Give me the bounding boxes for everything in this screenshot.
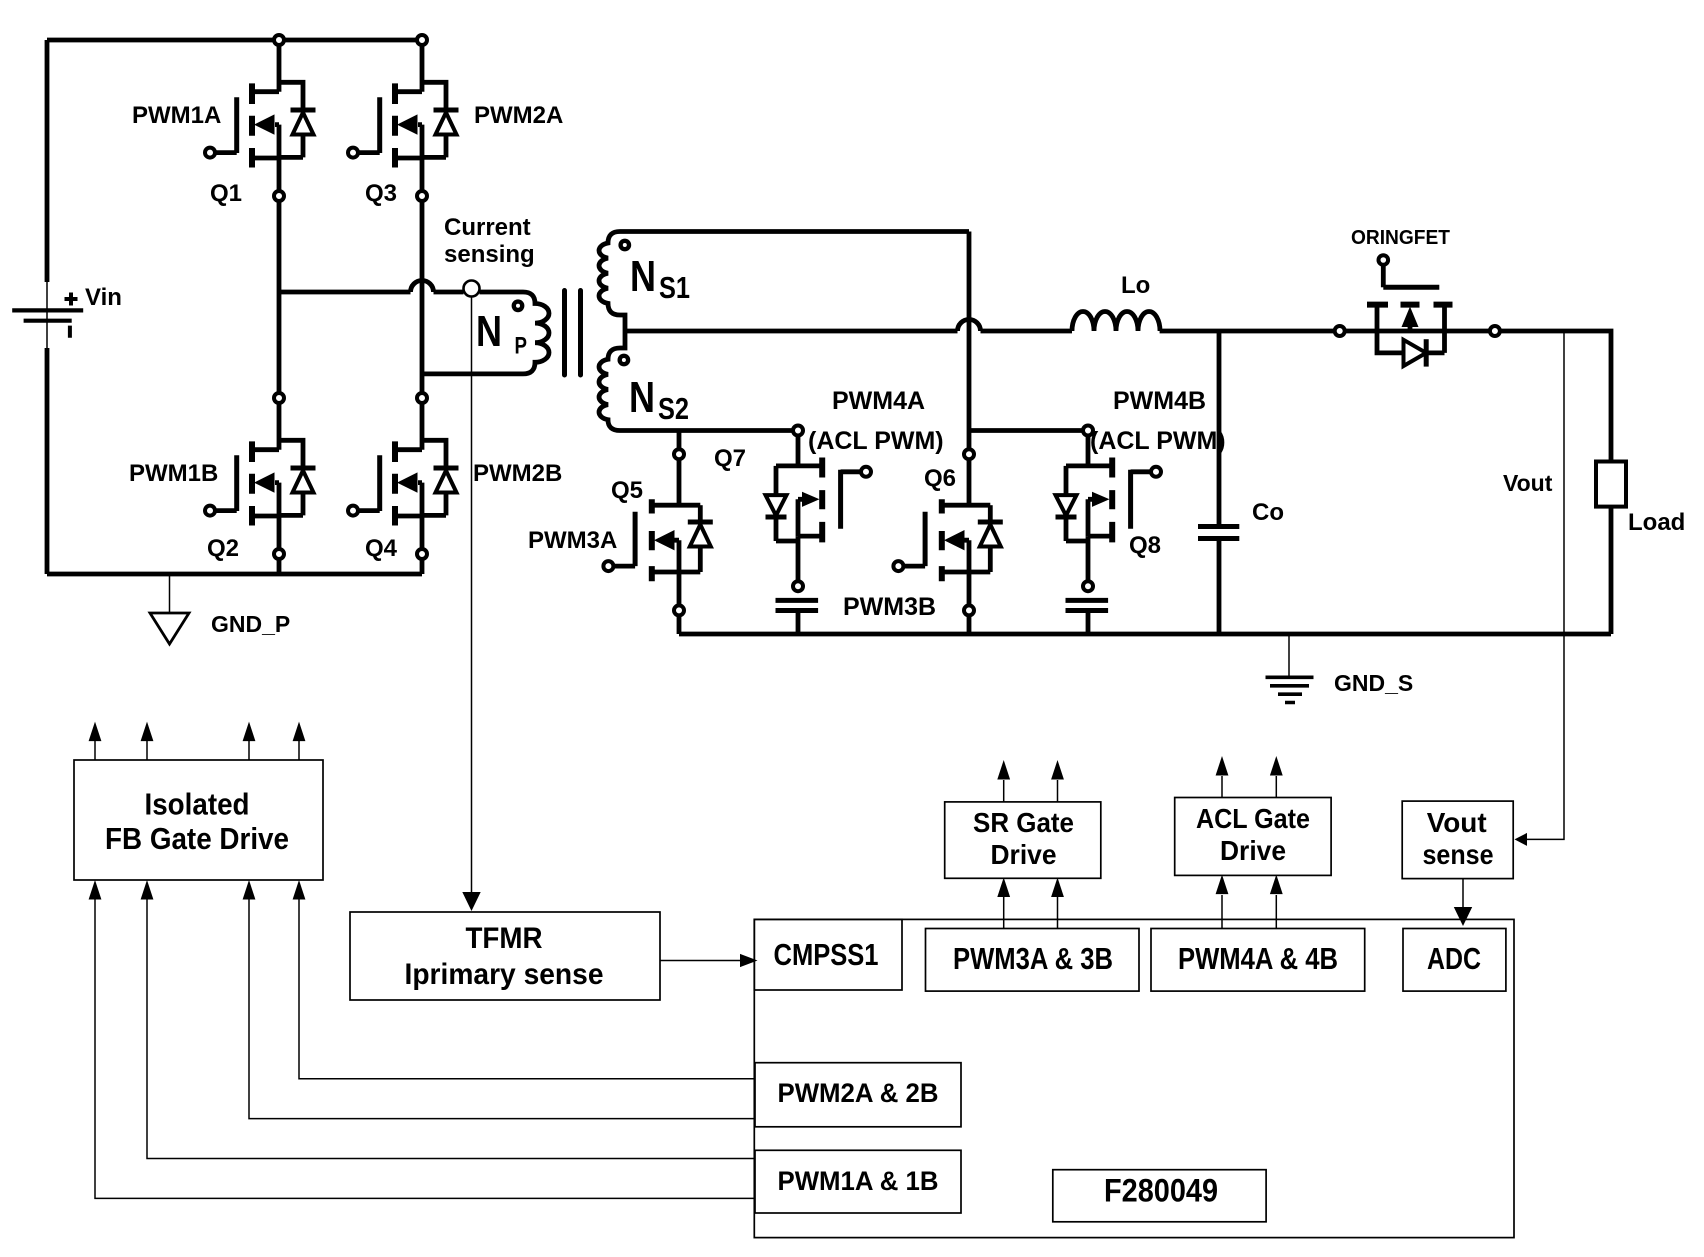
svg-text:PWM1A: PWM1A bbox=[132, 102, 221, 129]
svg-text:PWM2B: PWM2B bbox=[473, 460, 562, 487]
svg-text:Isolated: Isolated bbox=[145, 787, 250, 822]
svg-text:ACL Gate: ACL Gate bbox=[1196, 803, 1310, 834]
svg-text:Vout: Vout bbox=[1503, 470, 1553, 496]
svg-text:Q6: Q6 bbox=[924, 465, 956, 492]
svg-text:PWM2A & 2B: PWM2A & 2B bbox=[778, 1078, 939, 1108]
svg-text:(ACL PWM): (ACL PWM) bbox=[1090, 427, 1226, 455]
svg-text:Q8: Q8 bbox=[1129, 532, 1161, 559]
svg-text:ADC: ADC bbox=[1427, 941, 1481, 976]
svg-text:Q2: Q2 bbox=[207, 535, 239, 562]
svg-text:Q4: Q4 bbox=[365, 535, 398, 562]
svg-text:S1: S1 bbox=[659, 270, 690, 305]
svg-text:P: P bbox=[515, 332, 528, 359]
svg-text:Lo: Lo bbox=[1121, 272, 1150, 299]
svg-text:SR Gate: SR Gate bbox=[973, 807, 1074, 838]
svg-text:PWM4A: PWM4A bbox=[832, 387, 925, 415]
svg-text:TFMR: TFMR bbox=[466, 922, 543, 955]
svg-text:ORINGFET: ORINGFET bbox=[1351, 227, 1450, 249]
svg-text:Current: Current bbox=[444, 214, 531, 241]
svg-text:FB Gate Drive: FB Gate Drive bbox=[105, 821, 289, 856]
svg-text:Q3: Q3 bbox=[365, 180, 397, 207]
svg-text:PWM1A & 1B: PWM1A & 1B bbox=[778, 1166, 939, 1196]
svg-text:Drive: Drive bbox=[991, 839, 1057, 870]
svg-text:PWM4A & 4B: PWM4A & 4B bbox=[1178, 941, 1338, 976]
svg-text:F280049: F280049 bbox=[1104, 1173, 1218, 1209]
svg-text:PWM4B: PWM4B bbox=[1113, 387, 1206, 415]
svg-text:Q1: Q1 bbox=[210, 180, 242, 207]
svg-text:GND_P: GND_P bbox=[211, 611, 290, 637]
svg-text:N: N bbox=[476, 307, 502, 356]
svg-text:CMPSS1: CMPSS1 bbox=[774, 937, 879, 972]
svg-text:sensing: sensing bbox=[444, 241, 535, 268]
svg-text:Co: Co bbox=[1252, 499, 1284, 526]
svg-text:GND_S: GND_S bbox=[1334, 670, 1413, 696]
svg-text:PWM1B: PWM1B bbox=[129, 460, 218, 487]
svg-text:Vin: Vin bbox=[85, 284, 122, 311]
svg-text:Q5: Q5 bbox=[611, 477, 643, 504]
svg-text:PWM3A & 3B: PWM3A & 3B bbox=[953, 941, 1113, 976]
svg-text:Drive: Drive bbox=[1220, 835, 1286, 866]
svg-text:Q7: Q7 bbox=[714, 445, 746, 472]
svg-text:PWM3A: PWM3A bbox=[528, 527, 617, 554]
svg-text:Iprimary sense: Iprimary sense bbox=[405, 958, 604, 991]
svg-text:PWM3B: PWM3B bbox=[843, 593, 936, 621]
svg-text:Load: Load bbox=[1628, 509, 1685, 536]
svg-text:Vout: Vout bbox=[1427, 807, 1487, 838]
svg-text:N: N bbox=[629, 373, 655, 422]
svg-text:sense: sense bbox=[1423, 839, 1494, 870]
svg-text:PWM2A: PWM2A bbox=[474, 102, 563, 129]
svg-text:N: N bbox=[630, 252, 656, 301]
svg-text:S2: S2 bbox=[658, 391, 689, 426]
svg-text:(ACL PWM): (ACL PWM) bbox=[808, 427, 944, 455]
